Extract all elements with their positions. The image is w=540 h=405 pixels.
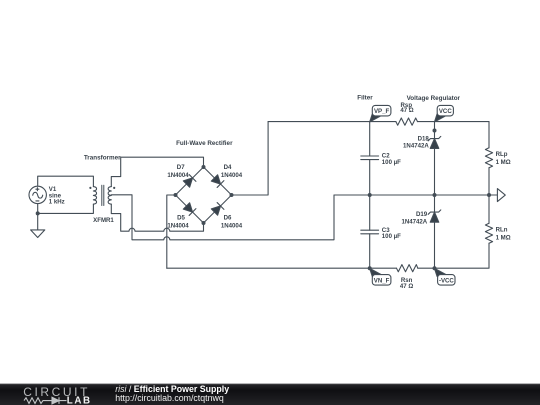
wire bottom rail	[167, 267, 489, 269]
label D6 1N4004	[221, 215, 243, 230]
wire V1 bottom to primary bottom	[38, 204, 94, 214]
net flag VP_F	[370, 105, 391, 122]
svg-text:47 Ω: 47 Ω	[400, 283, 413, 290]
wire middle rail	[334, 194, 497, 196]
node middle rail at zener column	[433, 193, 437, 197]
svg-text:1N4742A: 1N4742A	[403, 143, 429, 150]
node junction below VCC	[433, 129, 437, 133]
svg-text:Full-Wave Rectifier: Full-Wave Rectifier	[176, 140, 233, 147]
svg-text:47 Ω: 47 Ω	[400, 107, 413, 114]
node middle rail at load column	[487, 193, 491, 197]
label D18 1N4742A	[403, 135, 429, 149]
node bottom rail at filter column	[368, 266, 372, 270]
svg-text:D18: D18	[418, 135, 430, 142]
wire top rail left of Rsp	[268, 121, 396, 123]
resistor Rsp	[396, 118, 418, 125]
net flag VCC	[435, 105, 454, 122]
diode D5	[183, 203, 196, 216]
wire filter column upper	[369, 122, 371, 156]
svg-text:D5: D5	[177, 215, 185, 222]
net flag -VCC	[435, 268, 456, 285]
label C3 100uF	[382, 227, 401, 240]
wire secondary bottom to bridge bottom	[111, 204, 203, 231]
wire zener column middle	[434, 148, 436, 212]
diode D6	[211, 203, 224, 216]
svg-text:1 MΩ: 1 MΩ	[496, 159, 511, 166]
svg-text:VN_F: VN_F	[374, 277, 390, 284]
svg-text:D6: D6	[224, 215, 232, 222]
svg-text:http://circuitlab.com/ctqtnwq: http://circuitlab.com/ctqtnwq	[115, 393, 224, 403]
capacitor C3	[361, 230, 379, 234]
label RLp 1Mohm	[496, 151, 511, 166]
wire load column middle	[488, 168, 490, 224]
resistor Rsn	[397, 265, 418, 272]
svg-text:1N4004: 1N4004	[221, 222, 243, 229]
output terminal arrow	[497, 189, 505, 202]
wire top rail right of Rsp	[418, 121, 490, 123]
label Rsn 47 ohm	[400, 277, 413, 290]
diode D7	[183, 175, 196, 188]
svg-text:100 µF: 100 µF	[382, 159, 401, 166]
label C2 100uF	[382, 153, 401, 166]
net flag VN_F	[370, 268, 391, 285]
wire secondary top to bridge top	[111, 157, 203, 186]
svg-text:-VCC: -VCC	[439, 277, 454, 284]
svg-text:1N4742A: 1N4742A	[401, 218, 427, 225]
wire bridge right vertex to top rail	[232, 122, 269, 195]
node bridge top vertex	[202, 165, 206, 169]
svg-text:Transformer: Transformer	[84, 155, 121, 162]
wire zener column upper	[434, 122, 436, 139]
svg-text:RLp: RLp	[496, 151, 508, 158]
voltage source V1	[29, 186, 46, 203]
resistor RLp	[485, 148, 492, 168]
svg-text:XFMR1: XFMR1	[93, 217, 114, 224]
wire load column lower	[488, 243, 490, 268]
node bridge bottom vertex	[202, 221, 206, 225]
node middle rail at filter column	[368, 193, 372, 197]
label D5 1N4004	[167, 215, 189, 230]
svg-text:100 µF: 100 µF	[382, 233, 401, 240]
wire bridge edge left-top	[176, 167, 204, 195]
zener diode D19	[428, 210, 441, 222]
svg-text:D19: D19	[416, 211, 428, 218]
wire filter column middle	[369, 160, 371, 231]
wire bridge edge top-right	[204, 167, 232, 195]
wire bridge edge bottom-right	[204, 195, 232, 223]
label Rsp 47 ohm	[400, 102, 413, 114]
svg-text:D7: D7	[177, 164, 185, 171]
wire V1 top to primary top	[38, 176, 94, 186]
capacitor C2	[361, 156, 379, 160]
logo resistor-diode glyph	[24, 397, 67, 404]
node junction at V1 bottom	[36, 211, 40, 215]
node bottom rail at zener column	[433, 266, 437, 270]
resistor RLn	[485, 223, 492, 243]
svg-text:1N4004: 1N4004	[167, 222, 189, 229]
node bridge right vertex	[230, 193, 234, 197]
transformer XFMR1	[89, 185, 115, 205]
wire bridge left vertex to bottom rail	[167, 195, 176, 268]
svg-text:1N4004: 1N4004	[221, 172, 243, 179]
svg-text:VP_F: VP_F	[374, 108, 390, 115]
ground	[31, 230, 45, 238]
svg-text:D4: D4	[224, 164, 232, 171]
node bridge left vertex	[174, 193, 178, 197]
svg-text:1 kHz: 1 kHz	[49, 199, 65, 206]
wire zener column lower	[434, 222, 436, 268]
svg-text:RLn: RLn	[496, 226, 508, 233]
wire ground stem	[37, 213, 39, 230]
wire bridge edge left-bottom	[176, 195, 204, 223]
label V1 sine 1 kHz	[49, 186, 65, 206]
label D4 1N4004	[221, 164, 243, 179]
label D7 1N4004	[167, 164, 189, 179]
svg-text:LAB: LAB	[67, 396, 92, 405]
zener diode D18	[428, 136, 441, 148]
diode D4	[211, 175, 224, 188]
wire filter column lower	[369, 234, 371, 268]
svg-text:1N4004: 1N4004	[167, 172, 189, 179]
svg-text:VCC: VCC	[439, 108, 452, 115]
svg-text:Voltage Regulator: Voltage Regulator	[407, 95, 461, 102]
svg-text:1 MΩ: 1 MΩ	[496, 235, 511, 242]
svg-text:Filter: Filter	[357, 95, 373, 102]
label D19 1N4742A	[401, 211, 427, 225]
wire load column upper	[488, 122, 490, 148]
label RLn 1Mohm	[496, 226, 511, 241]
wire secondary center tap to middle rail	[111, 195, 334, 240]
